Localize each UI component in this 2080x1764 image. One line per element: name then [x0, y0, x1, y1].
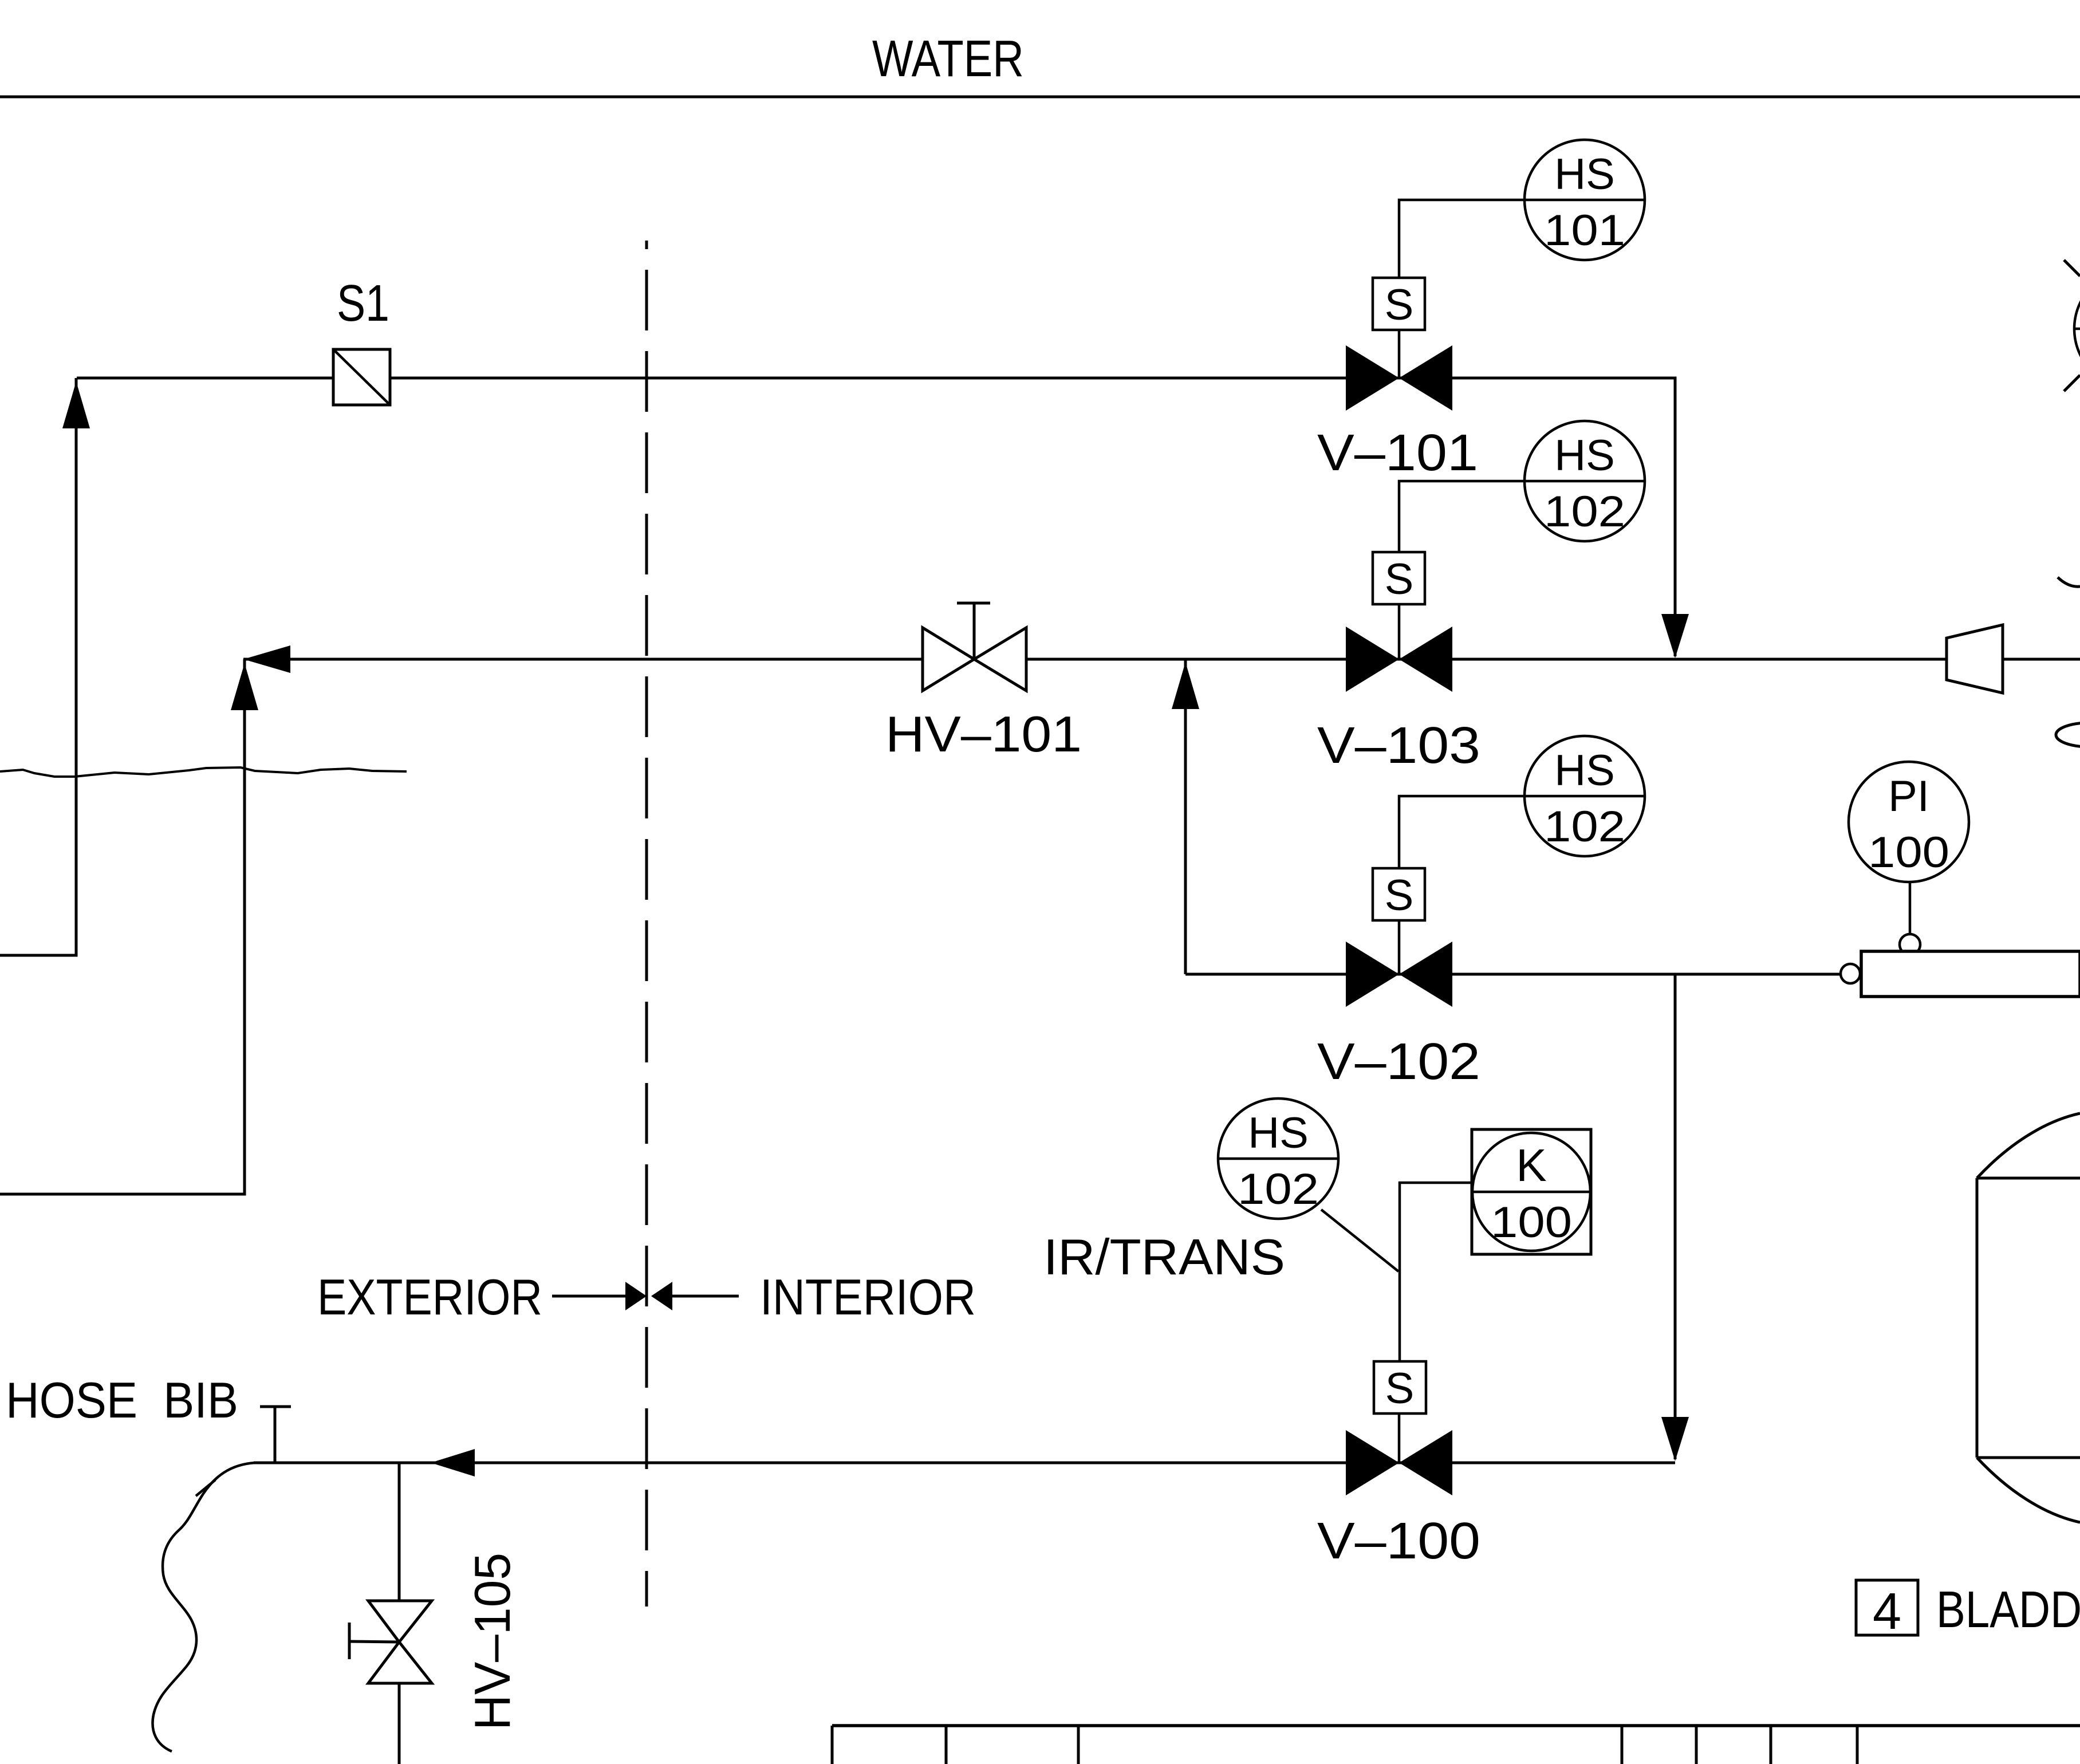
- arrow down onto line B at x2925: [1661, 614, 1689, 658]
- wire dashed exterior/interior boundary: [645, 241, 648, 1606]
- wire second riser to line B: [0, 659, 245, 1194]
- svg-text:EXTERIOR: EXTERIOR: [317, 1269, 542, 1325]
- wire V-100 actuator stem: [1398, 1413, 1401, 1463]
- valve V-102: [1346, 942, 1452, 1007]
- wire drop from line C to line D: [1674, 974, 1677, 1459]
- svg-text:102: 102: [1544, 487, 1625, 536]
- svg-text:V–101: V–101: [1317, 424, 1478, 482]
- reducer on line B: [1947, 625, 2003, 693]
- wire S box to HS-102 second: [1399, 796, 1524, 868]
- svg-text:WATER: WATER: [872, 30, 1024, 88]
- solenoid S box V-103: [1373, 552, 1425, 604]
- wire HV-105 branch: [398, 1463, 401, 1764]
- title block top line: [832, 1724, 2080, 1727]
- svg-text:V–100: V–100: [1317, 1513, 1480, 1570]
- keynote box 4: [1856, 1580, 1918, 1635]
- instrument HS-102 bubble middle: [1524, 736, 1645, 856]
- arrow up on riser x427: [231, 663, 258, 710]
- svg-text:V–102: V–102: [1317, 1033, 1480, 1090]
- svg-text:HS: HS: [1554, 431, 1615, 480]
- svg-text:IR/TRANS: IR/TRANS: [1043, 1228, 1285, 1285]
- svg-text:S: S: [1385, 1364, 1415, 1413]
- svg-text:100: 100: [1868, 828, 1949, 877]
- water surface wavy line: [0, 767, 407, 777]
- wire V-102 actuator stem: [1398, 920, 1401, 974]
- arrow up on riser x2070: [1172, 662, 1199, 709]
- valve V-100: [1346, 1430, 1452, 1495]
- wire line A upper pipe: [77, 378, 1675, 656]
- solenoid S box V-101: [1373, 278, 1425, 330]
- svg-text:V–103: V–103: [1317, 717, 1480, 774]
- valve V-101: [1346, 345, 1452, 411]
- hose bib tick: [260, 1407, 291, 1463]
- svg-text:HV–101: HV–101: [885, 706, 1082, 762]
- cut-off equipment at right edge: upper diagonal: [2064, 260, 2080, 276]
- svg-text:4: 4: [1873, 1583, 1901, 1640]
- bladder tank shell: [1977, 1113, 2080, 1522]
- wire V-101 actuator stem: [1398, 330, 1401, 378]
- filter S1 square: [333, 349, 390, 405]
- svg-text:102: 102: [1238, 1165, 1319, 1214]
- title block dividers: [832, 1726, 1857, 1764]
- svg-text:HV–105: HV–105: [464, 1553, 521, 1730]
- valve HV-101 manual: [923, 628, 1026, 691]
- svg-text:K: K: [1516, 1140, 1546, 1191]
- arrow up into line A: [62, 381, 90, 428]
- svg-text:BLADDER: BLADDER: [1936, 1581, 2080, 1639]
- wire left riser to line A: [0, 378, 76, 955]
- HV-105 T handle: [349, 1623, 399, 1659]
- expansion tank rectangle: [1861, 951, 2080, 997]
- svg-text:102: 102: [1544, 802, 1625, 851]
- svg-text:HS: HS: [1554, 150, 1615, 199]
- instrument HS-102 bubble upper: [1524, 421, 1645, 541]
- svg-text:INTERIOR: INTERIOR: [760, 1269, 976, 1325]
- arrow left end of line B: [243, 645, 290, 673]
- EXTERIOR / INTERIOR boundary arrows: [552, 1295, 739, 1298]
- cut-off ellipse nozzle at right edge: [2056, 723, 2080, 747]
- arrow left on line D: [431, 1449, 475, 1476]
- svg-text:S: S: [1385, 555, 1414, 604]
- svg-text:HS: HS: [1248, 1109, 1309, 1157]
- svg-text:100: 100: [1491, 1198, 1572, 1247]
- instrument HS-101 bubble: [1524, 140, 1645, 260]
- solenoid S box V-100: [1374, 1361, 1426, 1413]
- instrument PI-100 bubble: [1849, 762, 1969, 882]
- rectangle left connection circle: [1841, 964, 1860, 983]
- cut-off arc at right edge mid: [2058, 577, 2080, 586]
- wire top boundary line: [0, 96, 2080, 99]
- cut-off equipment lower diagonal: [2064, 375, 2080, 391]
- cut-off instrument bubble at right edge: [2074, 269, 2080, 389]
- PI-100 connection circle: [1900, 934, 1920, 955]
- instrument HS-102 bubble near K-100: [1218, 1098, 1338, 1219]
- wire S box to HS-102 first: [1399, 481, 1524, 552]
- valve V-103: [1346, 627, 1452, 692]
- arrow down onto line D at x2925: [1661, 1417, 1689, 1461]
- hose break tick: [196, 1480, 215, 1496]
- wire V-103 actuator stem: [1398, 604, 1401, 659]
- svg-text:HS: HS: [1554, 746, 1615, 795]
- wire line B mid pipe: [243, 658, 2080, 661]
- wire riser from line C to line B: [1184, 659, 1187, 974]
- cut-off bubble divider tick: [2074, 328, 2080, 330]
- wire diagonal from HS-102 to V-100 signal line: [1321, 1210, 1399, 1271]
- wire S box up and over to K-100: [1400, 1183, 1472, 1361]
- wire line D lower pipe: [254, 1462, 1675, 1464]
- instrument K-100 shared display: [1472, 1129, 1591, 1254]
- valve HV-105 vertical manual: [368, 1601, 432, 1683]
- wire line C V-102 pipe: [1185, 973, 1841, 976]
- svg-text:S1: S1: [337, 275, 389, 332]
- svg-text:S: S: [1385, 281, 1414, 329]
- svg-text:HOSE BIB: HOSE BIB: [6, 1372, 238, 1428]
- wire S box to HS-101: [1399, 200, 1524, 278]
- svg-text:101: 101: [1544, 206, 1625, 255]
- svg-text:S: S: [1385, 871, 1414, 920]
- wire PI-100 stem: [1909, 882, 1912, 934]
- solenoid S box V-102: [1373, 868, 1425, 920]
- HV-101 T handle: [957, 603, 990, 659]
- svg-text:PI: PI: [1888, 772, 1929, 821]
- hose squiggle: [152, 1463, 255, 1751]
